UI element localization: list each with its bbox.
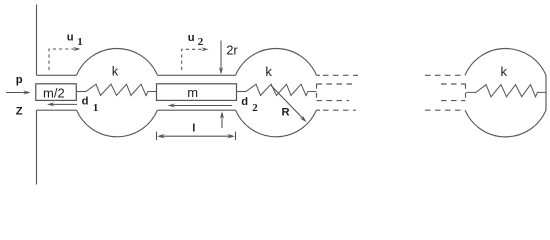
dashed tube bottom wall before cavity 3 (425, 109, 465, 111)
l dimension tick right (235, 132, 237, 141)
wall (baffle) lower segment (36, 110, 38, 184)
2r diameter arrow (down) (220, 41, 222, 71)
tube 2 bottom wall (157, 109, 235, 111)
tube 3 dashed top wall (323, 74, 358, 76)
l dimension line (161, 135, 231, 137)
tube 3 solid stub top (317, 74, 321, 76)
svg-text:R: R (282, 107, 290, 119)
velocity arrow u1 (dashed) (49, 49, 75, 70)
svg-text:u: u (67, 32, 74, 44)
2r diameter arrow (up) (221, 116, 223, 128)
svg-text:2r: 2r (226, 42, 238, 57)
svg-text:1: 1 (93, 102, 99, 114)
dashed mass box top left (317, 83, 357, 85)
cavity 1 top arc (77, 48, 158, 75)
svg-text:m: m (187, 85, 198, 100)
spring 1 (77, 84, 157, 95)
svg-text:2: 2 (252, 102, 258, 114)
svg-text:l: l (192, 123, 195, 135)
R radius arrow (271, 86, 304, 120)
svg-text:u: u (188, 32, 195, 44)
cavity 2 top arc (236, 48, 317, 75)
svg-text:k: k (112, 64, 119, 79)
tube 1 top wall (37, 74, 77, 76)
dashed mass box left edge (316, 84, 318, 101)
l dimension tick left (156, 132, 158, 141)
velocity arrow u2 (dashed) (182, 49, 203, 70)
incident pressure arrow p (6, 92, 27, 94)
svg-text:1: 1 (77, 36, 83, 48)
spring 2 (237, 84, 317, 95)
dashed mass box bottom right (441, 100, 466, 102)
dashed mass box right edge (465, 84, 467, 101)
tube 2 top wall (158, 74, 236, 76)
tube 3 solid stub bottom (316, 109, 320, 111)
svg-text:2: 2 (198, 36, 204, 48)
svg-text:m/2: m/2 (43, 86, 65, 101)
svg-text:k: k (501, 64, 508, 79)
dashed mass box top right (441, 83, 466, 85)
svg-text:d: d (82, 96, 89, 108)
svg-text:Z: Z (16, 106, 23, 118)
d1 displacement arrow (52, 103, 77, 105)
mass box m (157, 84, 237, 101)
mass box m/2 (36, 84, 77, 101)
cavity 2 bottom arc (236, 110, 317, 137)
dashed mass box bottom left (317, 100, 350, 102)
svg-text:k: k (265, 64, 272, 79)
svg-text:d: d (241, 96, 248, 108)
dashed tube top wall before cavity 3 (425, 74, 465, 76)
tube 1 bottom wall (37, 109, 77, 111)
cavity 1 bottom arc (77, 110, 158, 137)
wall (baffle) upper segment (36, 5, 38, 76)
spring 3 (466, 85, 546, 97)
cavity 3 outline (465, 48, 546, 136)
svg-text:p: p (16, 74, 23, 86)
d2 displacement arrow (173, 105, 232, 107)
tube 3 dashed bottom wall (323, 109, 356, 111)
